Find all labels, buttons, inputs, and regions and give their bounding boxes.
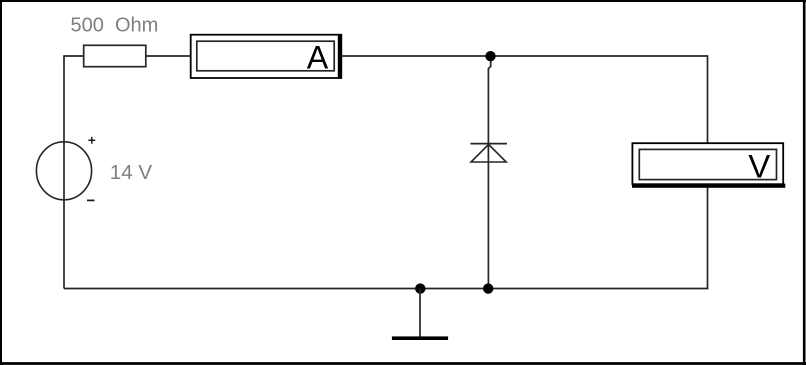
svg-text:500 Ohm: 500 Ohm: [71, 15, 159, 37]
wire: left vertical branch: [63, 56, 65, 289]
voltage source plus sign: [88, 137, 95, 144]
diode D1 cathode bar: [471, 143, 508, 145]
frame border right: [803, 0, 806, 365]
wire: ammeter to top-right corner: [342, 55, 708, 57]
voltmeter thick bottom edge: [632, 184, 785, 188]
junction node: ground tap on bottom rail: [415, 283, 425, 293]
voltage source minus sign: [87, 199, 95, 201]
frame border top: [0, 0, 806, 2]
voltmeter U2 outer box: [632, 143, 783, 184]
wire: resistor to ammeter: [146, 55, 191, 57]
junction node: diode bottom tap: [483, 283, 493, 293]
svg-text:V: V: [748, 148, 770, 185]
ground lead wire: [419, 289, 421, 338]
resistor R1 body: [84, 45, 146, 66]
ammeter inner box: [197, 41, 334, 71]
wire: top-right vertical down to voltmeter: [707, 55, 709, 143]
frame border bottom: [0, 362, 806, 365]
junction node: top diode tap: [485, 51, 495, 61]
wire: bottom rail: [64, 288, 708, 290]
wire: voltmeter bottom down to bottom rail: [707, 187, 709, 289]
voltage source V1 circle: [36, 142, 91, 200]
wire: diode branch vertical with jog: [488, 56, 490, 289]
wire: source to resistor: [63, 55, 83, 57]
voltmeter inner box: [639, 149, 776, 179]
ground bar: [392, 336, 448, 340]
ammeter thick right edge: [338, 34, 342, 79]
svg-text:14 V: 14 V: [110, 161, 153, 184]
ammeter U1 outer box: [191, 35, 341, 78]
frame border left: [0, 0, 2, 365]
diode D1 triangle: [471, 144, 506, 162]
svg-text:A: A: [307, 39, 329, 75]
